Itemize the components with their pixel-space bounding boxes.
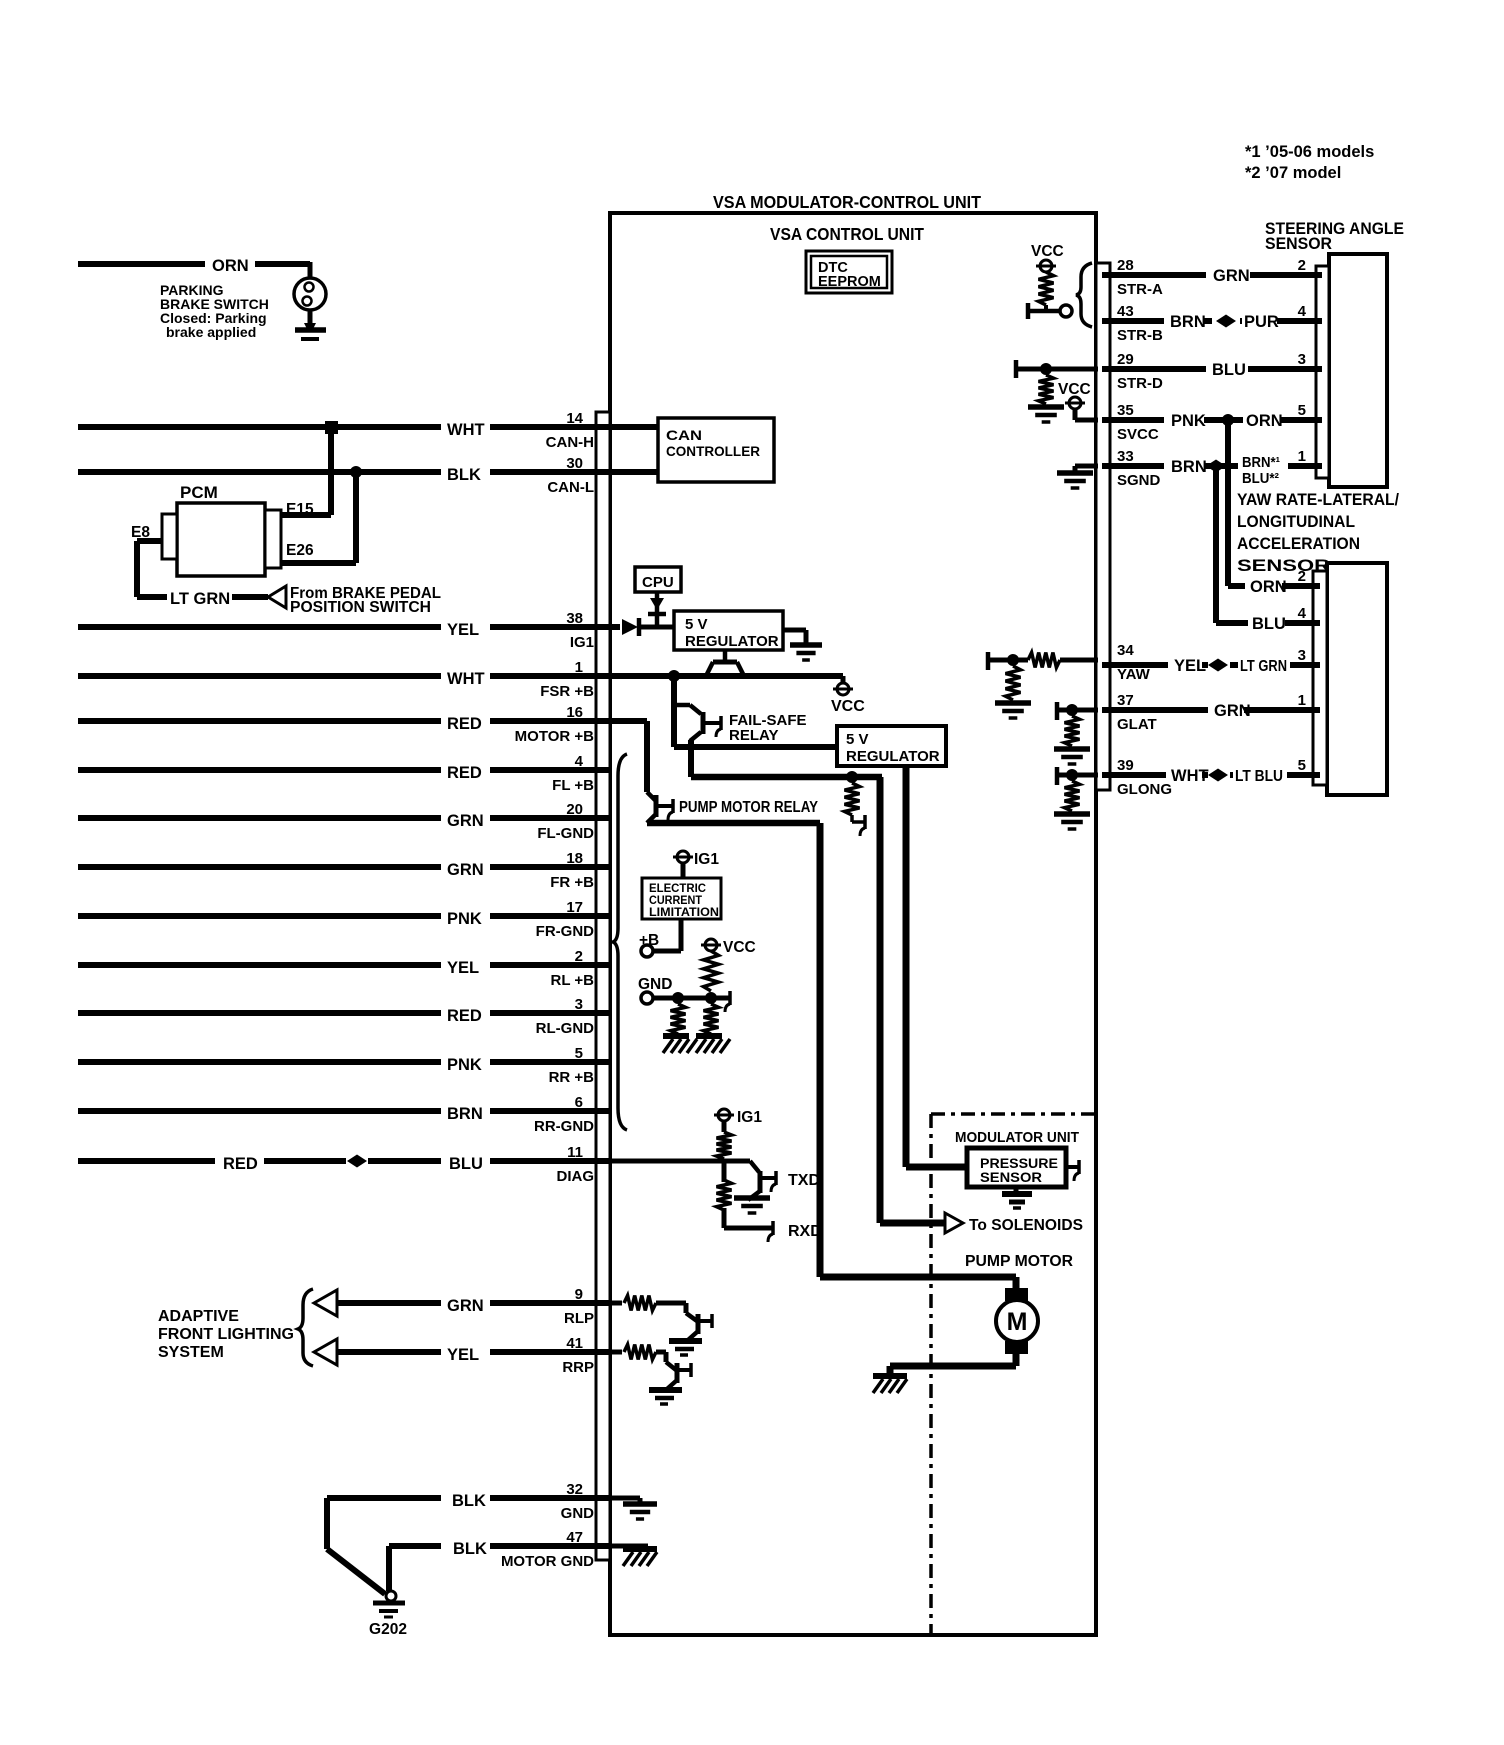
wire FL-GND pin 20 (GRN) [78, 815, 441, 821]
svg-text:GRN: GRN [447, 861, 484, 879]
resistor GLAT to ground [1065, 716, 1080, 746]
svg-text:FL-GND: FL-GND [537, 825, 594, 842]
STEERING ANGLE SENSOR box [1329, 254, 1387, 487]
svg-text:SVCC: SVCC [1117, 426, 1159, 443]
svg-text:SENSOR: SENSOR [980, 1170, 1042, 1185]
svg-text:ELECTRIC: ELECTRIC [649, 883, 706, 895]
wire RL-GND pin 3 (RED) [78, 1010, 441, 1016]
svg-text:LT BLU: LT BLU [1235, 768, 1283, 785]
svg-text:16: 16 [566, 704, 583, 721]
wire FL +B pin 4 (RED) [78, 767, 441, 773]
IG1 terminal above TXD [718, 1109, 730, 1121]
right connector strip of VSA unit [1096, 263, 1110, 790]
svg-text:IG1: IG1 [570, 634, 594, 651]
ground under TXD [734, 1195, 770, 1201]
wire GLAT pin 37 (GRN) [1102, 707, 1208, 713]
svg-text:To SOLENOIDS: To SOLENOIDS [969, 1217, 1083, 1234]
wire RLP pin 9 (GRN) [337, 1300, 441, 1306]
wire ORN to parking brake switch [78, 261, 205, 267]
svg-text:RR +B: RR +B [549, 1069, 595, 1086]
resistor GLONG to ground [1065, 781, 1080, 811]
svg-text:4: 4 [575, 753, 584, 770]
svg-text:VCC: VCC [723, 939, 756, 956]
svg-text:STR-A: STR-A [1117, 281, 1163, 298]
junction dot on CAN-L [350, 466, 362, 478]
ground under RRP transistor [649, 1387, 682, 1393]
svg-text:FR-GND: FR-GND [536, 923, 594, 940]
splice diamond YAW [1208, 659, 1228, 672]
junction dot on GND rail [672, 992, 684, 1004]
svg-text:BLU: BLU [1212, 361, 1246, 379]
pressure sensor output stub [1065, 1165, 1078, 1169]
5 V REGULATOR box 1 [674, 611, 783, 650]
svg-text:3: 3 [1298, 351, 1306, 368]
svg-text:RED: RED [447, 1007, 482, 1025]
wire YAW pin 34 (YEL/LT GRN) [1102, 662, 1168, 668]
wire GLONG pin 39 (WHT/LT BLU) [1102, 772, 1166, 778]
chassis ground right of ECL [696, 1033, 722, 1039]
resistor YAW to ground [1006, 666, 1021, 700]
ground at pin 32 [638, 1498, 643, 1503]
ground at 5V regulator 1 output [783, 628, 806, 633]
ELECTRIC CURRENT LIMITATION box [642, 878, 721, 919]
wire RR-GND pin 6 (BRN) [78, 1108, 441, 1114]
svg-text:CONTROLLER: CONTROLLER [666, 444, 760, 459]
relay coil resistor under 5V regulator 2 [845, 783, 860, 815]
pump motor relay base stub [658, 804, 672, 808]
wire STR-D pin 29 (BLU) [1102, 366, 1206, 372]
svg-text:STR-D: STR-D [1117, 375, 1163, 392]
junction dot under 5V regulator 2 [846, 771, 858, 783]
svg-text:M: M [1007, 1308, 1028, 1336]
resistor IG1 to DIAG rail [717, 1132, 732, 1159]
svg-text:BRN*¹: BRN*¹ [1242, 455, 1280, 471]
wire GND pin 32 (BLK) [327, 1495, 441, 1501]
svg-text:6: 6 [575, 1094, 583, 1111]
svg-text:2: 2 [1298, 568, 1306, 585]
wire MOTOR +B to pump motor relay [644, 721, 650, 792]
svg-text:5 V: 5 V [846, 731, 869, 748]
svg-text:PNK: PNK [447, 910, 482, 928]
svg-text:MOTOR +B: MOTOR +B [515, 728, 594, 745]
svg-text:5 V: 5 V [685, 616, 708, 633]
ground STR-D [1028, 404, 1064, 410]
svg-text:37: 37 [1117, 692, 1134, 709]
arrow To SOLENOIDS [945, 1213, 963, 1233]
RRP transistor Q5 [664, 1352, 669, 1362]
wire E8 / LT GRN to brake pedal position switch [137, 538, 162, 544]
svg-text:41: 41 [566, 1335, 583, 1352]
svg-text:EEPROM: EEPROM [818, 274, 881, 290]
svg-text:LT GRN: LT GRN [170, 590, 230, 608]
wire SVCC internal [1073, 409, 1078, 420]
resistor GND rail left [671, 1004, 686, 1034]
DTC EEPROM box [806, 251, 892, 293]
svg-text:STR-B: STR-B [1117, 327, 1163, 344]
brace adaptive front lighting [298, 1289, 313, 1366]
splice diamond STR-B [1216, 315, 1236, 328]
svg-text:PCM: PCM [180, 483, 218, 502]
svg-text:GND: GND [638, 976, 672, 993]
wire STR-A pin 28 (GRN) [1102, 272, 1206, 278]
svg-text:32: 32 [566, 1481, 583, 1498]
svg-text:FL +B: FL +B [552, 777, 594, 794]
CPU box [635, 567, 681, 592]
svg-text:30: 30 [566, 455, 583, 472]
svg-text:1: 1 [1298, 692, 1306, 709]
transistor under 5V regulator 1 [723, 650, 728, 661]
svg-text:RED: RED [223, 1155, 258, 1173]
wire to solenoids [880, 1220, 945, 1227]
svg-text:TXD: TXD [788, 1172, 820, 1189]
resistor STR pull-up [1039, 272, 1054, 305]
modulator unit boundary dash-dot [931, 1112, 1096, 1116]
svg-text:LT GRN: LT GRN [1240, 658, 1287, 675]
svg-text:FSR +B: FSR +B [540, 683, 594, 700]
svg-text:RR-GND: RR-GND [534, 1118, 594, 1135]
svg-text:IG1: IG1 [694, 851, 719, 868]
svg-text:BRN: BRN [1170, 313, 1206, 331]
svg-text:BLU*²: BLU*² [1242, 471, 1279, 487]
PCM box [177, 503, 265, 576]
wire STR-D internal [1016, 367, 1098, 372]
switch contact STR [1026, 303, 1031, 319]
diode on IG1 wire pin 38 [622, 619, 638, 635]
wire E26 to CAN-L [281, 560, 356, 566]
svg-text:29: 29 [1117, 351, 1134, 368]
junction dot GLONG [1066, 769, 1078, 781]
wire RRP pin 41 (YEL) [337, 1349, 441, 1355]
chassis ground left of ECL [663, 1033, 689, 1039]
svg-text:WHT: WHT [1171, 767, 1209, 785]
svg-text:BLK: BLK [447, 466, 481, 484]
svg-text:17: 17 [566, 899, 583, 916]
svg-text:G202: G202 [369, 1621, 407, 1638]
wire STR-B pin 43 (BRN/PUR) [1102, 318, 1164, 324]
svg-text:RED: RED [447, 764, 482, 782]
resistor GND rail right [704, 1004, 719, 1034]
wire pump motor to ground [1013, 1354, 1020, 1366]
left connector strip of VSA unit [596, 412, 610, 1560]
wire CAN-L pin 30 (BLK) [78, 469, 441, 475]
svg-text:35: 35 [1117, 402, 1134, 419]
svg-text:ORN: ORN [1250, 578, 1287, 596]
VCC terminal above pull-up [705, 939, 717, 951]
svg-text:4: 4 [1298, 605, 1307, 622]
svg-text:PUMP MOTOR RELAY: PUMP MOTOR RELAY [679, 799, 819, 816]
wire GLAT internal [1057, 708, 1098, 713]
arrow to AFS (RLP) [314, 1290, 337, 1316]
splice diamond SGND [1206, 460, 1226, 473]
wire RL +B pin 2 (YEL) [78, 962, 441, 968]
svg-text:VSA CONTROL UNIT: VSA CONTROL UNIT [770, 224, 924, 244]
svg-text:CAN-L: CAN-L [547, 479, 594, 496]
svg-text:*1 ’05-06 models: *1 ’05-06 models [1245, 143, 1374, 161]
svg-text:YEL: YEL [447, 1346, 479, 1364]
wire SVCC pin 35 (PNK/ORN) [1102, 417, 1164, 423]
svg-text:BLK: BLK [453, 1540, 487, 1558]
wire SGND pin 33 (BRN) [1102, 463, 1164, 469]
svg-text:5: 5 [1298, 757, 1306, 774]
svg-text:5: 5 [1298, 402, 1306, 419]
wire MOTOR +B pin 16 (RED) [78, 718, 441, 724]
svg-text:LIMITATION: LIMITATION [649, 907, 719, 919]
resistor YAW series [1028, 653, 1060, 668]
svg-text:FRONT LIGHTING: FRONT LIGHTING [158, 1326, 294, 1343]
svg-text:11: 11 [567, 1144, 583, 1161]
brace grouping wheel solenoid pins [613, 754, 627, 1130]
svg-text:34: 34 [1117, 642, 1134, 659]
svg-text:VCC: VCC [1058, 381, 1091, 398]
junction dot STR-D [1040, 363, 1052, 375]
junction dot YAW [1007, 654, 1019, 666]
svg-text:PUR: PUR [1244, 313, 1279, 331]
ground SGND internal [1075, 464, 1098, 469]
ground GLAT [1054, 746, 1090, 752]
svg-text:YAW: YAW [1117, 666, 1151, 683]
RRP collector stub [679, 1368, 690, 1372]
wire RXD [724, 1226, 772, 1231]
VSA modulator-control unit enclosure box [610, 213, 1096, 1635]
svg-text:WHT: WHT [447, 421, 485, 439]
wire GLONG internal [1057, 773, 1098, 778]
wire fail-safe emitter to solenoid rail [688, 740, 694, 777]
svg-text:BLU: BLU [1252, 615, 1286, 633]
RLP transistor Q4 [684, 1303, 689, 1313]
svg-text:ORN: ORN [1246, 412, 1283, 430]
wire FSR +B pin 1 (WHT) [78, 673, 441, 679]
wire GND rail [653, 996, 729, 1001]
svg-text:CURRENT: CURRENT [649, 895, 702, 907]
svg-text:VCC: VCC [1031, 243, 1064, 260]
TXD transistor Q3 [750, 1161, 759, 1172]
svg-text:ACCELERATION: ACCELERATION [1237, 535, 1360, 553]
svg-text:4: 4 [1298, 303, 1307, 320]
wire fail-safe feed vertical [671, 676, 677, 747]
wire IG1 pin 38 (YEL) [78, 624, 441, 630]
svg-text:DIAG: DIAG [557, 1168, 595, 1185]
svg-text:PRESSURE: PRESSURE [980, 1156, 1058, 1171]
svg-text:YEL: YEL [447, 621, 479, 639]
wire SGND to yaw sensor pin 4 (BLU) [1213, 466, 1219, 623]
svg-text:RRP: RRP [562, 1359, 594, 1376]
svg-text:RLP: RLP [564, 1310, 594, 1327]
svg-text:PNK: PNK [447, 1056, 482, 1074]
svg-text:CPU: CPU [642, 574, 674, 591]
IG1 terminal above electric current limitation [677, 851, 689, 863]
svg-text:LONGITUDINAL: LONGITUDINAL [1237, 513, 1355, 531]
pump motor relay transistor Q2 [647, 792, 655, 800]
resistor RLP input [612, 1301, 622, 1306]
svg-text:20: 20 [566, 801, 583, 818]
svg-text:RXD: RXD [788, 1223, 822, 1240]
5 V REGULATOR box 2 [837, 726, 946, 766]
svg-text:MODULATOR UNIT: MODULATOR UNIT [955, 1129, 1079, 1146]
svg-text:REGULATOR: REGULATOR [685, 633, 779, 650]
svg-text:PUMP MOTOR: PUMP MOTOR [965, 1253, 1073, 1270]
svg-text:BLK: BLK [452, 1492, 486, 1510]
svg-text:RL-GND: RL-GND [536, 1020, 594, 1037]
svg-text:YEL: YEL [1174, 657, 1206, 675]
chassis ground at pump motor [873, 1373, 907, 1379]
svg-text:SENSOR: SENSOR [1265, 235, 1332, 253]
VCC pull-up resistor [704, 951, 719, 991]
parking brake switch symbol [294, 278, 326, 310]
svg-text:VCC: VCC [831, 698, 865, 715]
svg-text:18: 18 [566, 850, 583, 867]
svg-text:GRN: GRN [447, 812, 484, 830]
svg-text:39: 39 [1117, 757, 1134, 774]
PRESSURE SENSOR box [906, 1164, 967, 1171]
svg-text:MOTOR GND: MOTOR GND [501, 1553, 594, 1570]
svg-text:BLU: BLU [449, 1155, 483, 1173]
svg-text:GRN: GRN [1214, 702, 1251, 720]
fail-safe relay transistor Q1 [674, 703, 690, 708]
svg-text:GND: GND [561, 1505, 595, 1522]
svg-text:9: 9 [575, 1286, 583, 1303]
diode from CPU to IG1 rail [655, 592, 660, 627]
svg-text:2: 2 [575, 948, 583, 965]
svg-text:CAN: CAN [666, 428, 702, 443]
junction dot SVCC/ORN [1222, 414, 1234, 426]
svg-text:REGULATOR: REGULATOR [846, 748, 940, 765]
YAW RATE sensor box [1327, 563, 1387, 795]
ground G202 [386, 1591, 396, 1601]
svg-text:2: 2 [1298, 257, 1306, 274]
TXD stub [762, 1176, 775, 1180]
resistor RRP input [612, 1350, 622, 1355]
ground GLONG [1054, 811, 1090, 817]
brace to STR-A/STR-B pins [1076, 263, 1092, 327]
svg-text:E26: E26 [286, 542, 314, 559]
chassis ground at pin 47 [623, 1546, 657, 1552]
junction dot on FSR +B rail [668, 670, 680, 682]
svg-text:GRN: GRN [447, 1297, 484, 1315]
svg-text:1: 1 [1298, 448, 1306, 465]
svg-text:ORN: ORN [212, 257, 249, 275]
svg-text:FR +B: FR +B [550, 874, 594, 891]
svg-text:GLONG: GLONG [1117, 781, 1172, 798]
wire ECL to +B terminal [679, 919, 684, 951]
wire RR +B pin 5 (PNK) [78, 1059, 441, 1065]
VCC terminal at end of FSR +B rail [841, 676, 846, 682]
wire pin 47 down to G202 [386, 1546, 392, 1591]
svg-text:SGND: SGND [1117, 472, 1161, 489]
svg-text:CAN-H: CAN-H [546, 434, 594, 451]
ground under pressure sensor [1014, 1187, 1019, 1193]
svg-text:*2 ’07 model: *2 ’07 model [1245, 164, 1341, 182]
wire YAW internal [988, 658, 1028, 663]
ground under RLP transistor [669, 1338, 702, 1344]
wire MOTOR GND pin 47 (BLK) [389, 1543, 441, 1549]
svg-text:WHT: WHT [447, 670, 485, 688]
RLP collector stub [700, 1319, 711, 1323]
wire SVCC to yaw sensor pin 2 (ORN) [1225, 420, 1231, 586]
junction dot GLAT [1066, 704, 1078, 716]
CAN CONTROLLER box [658, 418, 774, 482]
svg-text:1: 1 [575, 659, 583, 676]
svg-text:YAW RATE-LATERAL/: YAW RATE-LATERAL/ [1237, 491, 1399, 509]
ground YAW [995, 700, 1031, 706]
svg-text:3: 3 [575, 996, 583, 1013]
pump motor M1 [1005, 1288, 1028, 1301]
svg-text:SYSTEM: SYSTEM [158, 1344, 224, 1361]
svg-text:28: 28 [1117, 257, 1134, 274]
resistor DIAG rail lower [717, 1180, 732, 1210]
svg-text:47: 47 [566, 1529, 583, 1546]
svg-text:3: 3 [1298, 647, 1306, 664]
wire pin 32 down to G202 [324, 1498, 330, 1549]
junction dot VCC resistor to GND rail [705, 992, 717, 1004]
svg-text:14: 14 [566, 410, 583, 427]
arrow from brake pedal position switch [268, 586, 286, 608]
wire CAN-H pin 14 (WHT) [78, 424, 441, 430]
svg-text:38: 38 [566, 610, 583, 627]
svg-text:YEL: YEL [447, 959, 479, 977]
svg-text:brake applied: brake applied [166, 324, 256, 340]
svg-text:5: 5 [575, 1045, 583, 1062]
svg-text:GRN: GRN [1213, 267, 1250, 285]
svg-text:IG1: IG1 [737, 1109, 762, 1126]
svg-text:VSA MODULATOR-CONTROL UNIT: VSA MODULATOR-CONTROL UNIT [713, 192, 981, 212]
svg-text:GLAT: GLAT [1117, 716, 1157, 733]
wire E15 to CAN-H [281, 512, 331, 518]
wire FR +B pin 18 (GRN) [78, 864, 441, 870]
junction square on CAN-H [325, 421, 338, 434]
wire FR-GND pin 17 (PNK) [78, 913, 441, 919]
svg-text:43: 43 [1117, 303, 1134, 320]
svg-text:POSITION SWITCH: POSITION SWITCH [290, 599, 431, 616]
fail-safe relay base stub [705, 721, 720, 725]
svg-text:33: 33 [1117, 448, 1134, 465]
splice diamond on DIAG wire [347, 1155, 367, 1168]
wire 5V regulator 2 to pressure sensor [903, 766, 910, 1167]
wire to 5V regulator 2 [674, 744, 837, 750]
resistor STR-D to ground [1039, 375, 1054, 404]
svg-text:ADAPTIVE: ADAPTIVE [158, 1308, 239, 1325]
wire pump motor relay output [647, 820, 820, 827]
svg-text:PNK: PNK [1171, 412, 1206, 430]
svg-text:RELAY: RELAY [729, 727, 778, 744]
svg-text:BRN: BRN [447, 1105, 483, 1123]
svg-text:RED: RED [447, 715, 482, 733]
parking brake switch ground [308, 310, 313, 329]
arrow to AFS (RRP) [314, 1339, 337, 1365]
svg-text:BRN: BRN [1171, 458, 1207, 476]
svg-text:RL +B: RL +B [551, 972, 595, 989]
wire DIAG pin 11 (RED/BLU) [78, 1158, 215, 1164]
splice diamond GLONG [1208, 769, 1228, 782]
